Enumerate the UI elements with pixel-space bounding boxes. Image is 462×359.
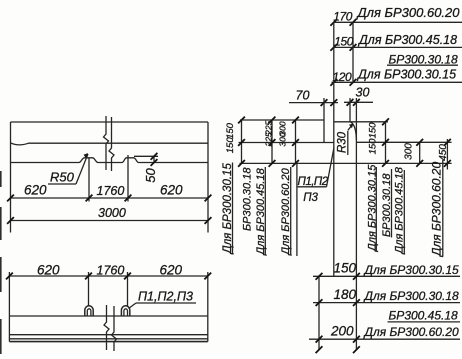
bottom level line 200: [309, 338, 460, 340]
plan extension line loop1: [88, 272, 90, 306]
svg-text:П1,П2: П1,П2: [298, 176, 329, 188]
left level line L1: [240, 119, 324, 121]
loop label underline: [136, 302, 196, 304]
beam mid line: [11, 143, 209, 145]
svg-text:150: 150: [368, 138, 379, 155]
arrow tick: [382, 139, 389, 146]
beam bottom edge with two bumps: [11, 158, 209, 163]
vertical dim line x=241.5: [241, 120, 243, 163]
svg-text:150: 150: [334, 35, 354, 49]
plan bottom edge: [9, 341, 207, 343]
bottom chain vertical left: [318, 276, 320, 350]
svg-text:620: 620: [24, 183, 47, 198]
arrow tick: [85, 273, 92, 280]
arrow tick: [350, 19, 357, 26]
svg-text:R30: R30: [336, 131, 348, 153]
arrow tick: [7, 195, 14, 202]
level line BR300.60.20: [334, 21, 462, 23]
arrow tick: [316, 336, 323, 343]
arrow tick: [292, 160, 299, 167]
svg-text:180: 180: [334, 287, 357, 302]
underline BR300.30.18: [387, 64, 458, 66]
arrow tick: [347, 99, 354, 106]
dimension line row1: [11, 197, 209, 199]
scan artifact edge strip 2: [0, 207, 2, 240]
level line BR300.45.18: [334, 46, 462, 48]
R50 leader arrow: [76, 154, 88, 184]
right level line R2: [356, 141, 447, 143]
arrow tick: [321, 99, 328, 106]
svg-text:1760: 1760: [97, 264, 125, 278]
scan artifact edge strip 4: [0, 319, 2, 354]
svg-text:620: 620: [37, 263, 60, 278]
rot underline B right: [391, 169, 393, 238]
arrow tick: [330, 19, 337, 26]
arrow tick: [353, 99, 360, 106]
dimension line 50: [153, 156, 155, 162]
extension line 70-left: [323, 98, 325, 143]
svg-text:Для БР300.30.15: Для БР300.30.15: [363, 263, 459, 277]
extension line bump1: [88, 158, 90, 202]
svg-text:450: 450: [438, 144, 449, 161]
bottom level line 150: [313, 275, 460, 277]
arrow tick: [416, 160, 423, 167]
arrow tick: [353, 299, 360, 306]
svg-text:БР300.30.18: БР300.30.18: [389, 53, 459, 67]
arrow tick: [330, 99, 337, 106]
svg-text:Для БР300.30.15: Для БР300.30.15: [356, 68, 456, 82]
extension tick 50-dim: [134, 155, 158, 157]
R30 underline: [347, 131, 349, 155]
beam top edge: [11, 121, 209, 123]
svg-text:225: 225: [264, 132, 274, 147]
arrow tick: [269, 117, 276, 124]
arrow tick: [124, 273, 131, 280]
section leader line: [327, 148, 335, 187]
plan break line 1: [104, 305, 109, 350]
arrow tick: [353, 273, 360, 280]
R30 leader arrow: [348, 125, 352, 130]
vertical dim line V3R: [446, 139, 448, 170]
break line 1: [104, 116, 109, 170]
left level line L2: [239, 142, 334, 144]
arrow tick: [350, 44, 357, 51]
plan break line 2: [112, 306, 117, 351]
arrow tick: [86, 195, 93, 202]
svg-text:Для БР300.60.20: Для БР300.60.20: [430, 162, 444, 258]
lifting loop 2: [121, 306, 129, 316]
dimension line row2 overall: [11, 220, 209, 222]
dimension line 30: [344, 101, 373, 103]
plan top edge: [9, 315, 207, 317]
svg-text:300: 300: [404, 143, 415, 160]
svg-text:1760: 1760: [97, 184, 125, 198]
arrow tick: [353, 346, 360, 353]
arrow tick: [316, 346, 323, 353]
plan dimension line: [9, 275, 207, 277]
svg-text:30: 30: [356, 86, 370, 100]
arrow tick: [382, 118, 389, 125]
svg-text:Для БР300.60.20: Для БР300.60.20: [363, 325, 459, 339]
break line 2: [109, 117, 114, 171]
arrow tick: [353, 336, 360, 343]
plan inner line 2: [9, 338, 207, 340]
lifting loop 1: [85, 306, 93, 316]
arrow tick at 50 top: [151, 153, 158, 160]
vertical dim line V2R: [419, 142, 421, 163]
arrow tick: [238, 117, 245, 124]
arrow tick: [269, 160, 276, 167]
arrow tick: [269, 139, 276, 146]
loop label leader: [129, 303, 137, 309]
level line L3 (full width): [240, 162, 452, 164]
svg-text:200: 200: [330, 324, 354, 339]
scan artifact edge strip 1: [0, 171, 2, 187]
arrow tick: [205, 217, 212, 224]
plan left edge + extension: [8, 272, 10, 342]
section R30 corner fillet: [351, 122, 357, 140]
rot underline C right: [403, 170, 405, 254]
arrow tick: [316, 299, 323, 306]
arrow tick: [350, 79, 357, 86]
svg-text:300: 300: [277, 132, 287, 146]
arrow tick: [125, 195, 132, 202]
svg-text:Для БР300.45.18: Для БР300.45.18: [357, 33, 457, 47]
svg-text:70: 70: [296, 88, 310, 102]
svg-text:П1,П2,П3: П1,П2,П3: [138, 290, 193, 304]
arrow tick: [330, 79, 337, 86]
extension line bump2: [127, 155, 129, 202]
beam right edge + extension: [207, 122, 209, 233]
rot underline A: [232, 163, 234, 254]
svg-text:620: 620: [160, 183, 183, 198]
svg-text:R50: R50: [50, 170, 75, 185]
bottom level line 180: [313, 302, 460, 304]
svg-text:120: 120: [333, 70, 353, 84]
vertical extension below L3: [296, 164, 298, 256]
vertical dim line V1R: [385, 122, 387, 164]
fraction bar: [297, 186, 327, 188]
svg-text:620: 620: [160, 263, 183, 278]
svg-text:БР300.45.18: БР300.45.18: [389, 309, 459, 323]
arrow tick: [238, 139, 245, 146]
arrow tick: [444, 160, 451, 167]
beam left edge + extension: [10, 122, 12, 233]
arrow tick: [416, 139, 423, 146]
arrow tick: [292, 139, 299, 146]
rot underline D right: [442, 160, 444, 257]
svg-text:170: 170: [333, 10, 353, 24]
vertical extension right: [352, 22, 354, 82]
dimension line 70: [289, 102, 338, 104]
vertical dim line left (long): [333, 22, 335, 277]
svg-text:150: 150: [334, 261, 357, 276]
arrow tick: [316, 273, 323, 280]
arrow tick: [330, 44, 337, 51]
arrow tick: [6, 273, 13, 280]
arrow tick: [292, 117, 299, 124]
arrow tick: [204, 273, 211, 280]
svg-text:Для БР300.30.18: Для БР300.30.18: [363, 289, 459, 303]
extension line 30-left: [349, 98, 351, 122]
svg-text:50: 50: [143, 168, 158, 183]
arrow tick: [205, 195, 212, 202]
svg-text:150: 150: [225, 122, 236, 139]
section right edge (long): [355, 98, 357, 350]
vertical dim line x=295.5: [295, 120, 297, 163]
plan extension line loop2: [127, 272, 129, 306]
svg-text:БР300.30.18: БР300.30.18: [241, 167, 253, 231]
vertical dim line x=272: [271, 120, 273, 163]
right level line R2 stub: [447, 141, 451, 143]
bottom underline BR300.45.18: [388, 321, 461, 323]
plan right edge + extension: [207, 272, 209, 342]
svg-text:150: 150: [368, 122, 379, 139]
plan inner line 1: [9, 334, 207, 336]
scan artifact edge strip 3: [0, 257, 2, 292]
rot underline C: [264, 167, 266, 255]
R50 underline: [48, 183, 76, 185]
arrow tick: [238, 160, 245, 167]
rot underline A right: [375, 167, 377, 252]
section top edge + extension: [334, 121, 388, 123]
svg-text:П3: П3: [303, 192, 318, 204]
rot underline D: [290, 167, 292, 255]
level line BR300.30.15: [332, 81, 462, 83]
arrow tick: [382, 160, 389, 167]
svg-text:Для БР300.60.20: Для БР300.60.20: [356, 5, 461, 20]
arrow tick: [444, 139, 451, 146]
svg-text:3000: 3000: [98, 206, 126, 220]
arrow tick at 50 bottom: [151, 159, 158, 166]
arrow tick: [7, 217, 14, 224]
svg-text:150: 150: [225, 137, 236, 154]
